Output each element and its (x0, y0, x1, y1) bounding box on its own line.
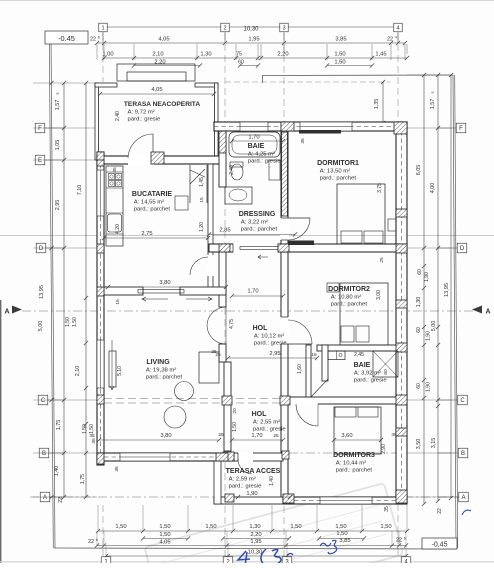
svg-text:LIVING: LIVING (146, 359, 170, 366)
svg-text:1,95: 1,95 (250, 539, 261, 545)
svg-text:C: C (460, 398, 465, 404)
svg-text:2,90: 2,90 (381, 444, 387, 454)
svg-text:TERASA ACCES: TERASA ACCES (226, 468, 281, 475)
svg-text:25: 25 (211, 349, 217, 355)
svg-text:A: 2,55 m²: A: 2,55 m² (253, 420, 280, 426)
svg-text:D: D (39, 246, 44, 252)
svg-text:A: 10,44 m²: A: 10,44 m² (336, 461, 366, 467)
svg-text:pard.: gresie: pard.: gresie (128, 117, 161, 123)
svg-text:1,05: 1,05 (55, 140, 61, 151)
svg-text:2,20: 2,20 (154, 60, 165, 66)
svg-text:A: A (4, 309, 9, 316)
svg-text:35: 35 (89, 433, 95, 439)
svg-text:5: 5 (431, 91, 435, 93)
svg-text:3,75: 3,75 (377, 183, 383, 193)
svg-text:10,30: 10,30 (243, 27, 259, 33)
svg-text:35: 35 (112, 167, 118, 173)
svg-text:3,00: 3,00 (376, 290, 382, 300)
svg-text:3,50: 3,50 (416, 439, 422, 450)
svg-text:1,75: 1,75 (80, 474, 86, 484)
svg-text:2,10: 2,10 (75, 366, 81, 377)
svg-text:20: 20 (232, 408, 238, 414)
svg-text:1,50: 1,50 (159, 524, 170, 530)
svg-text:2,45: 2,45 (354, 352, 364, 358)
svg-text:1,60: 1,60 (297, 364, 303, 374)
svg-text:1,50: 1,50 (334, 52, 345, 58)
svg-text:1,20: 1,20 (199, 222, 205, 232)
svg-text:1,50: 1,50 (65, 317, 71, 327)
svg-text:A: A (485, 309, 490, 316)
svg-text:1,95: 1,95 (248, 37, 259, 43)
svg-text:BAIE: BAIE (354, 362, 371, 369)
svg-text:DORMITOR1: DORMITOR1 (317, 160, 359, 167)
svg-text:pard.: parchet: pard.: parchet (336, 468, 373, 474)
svg-text:13,95: 13,95 (39, 285, 45, 299)
svg-text:1,50: 1,50 (232, 422, 238, 432)
svg-text:1,50: 1,50 (159, 532, 170, 538)
svg-text:1,50: 1,50 (336, 531, 347, 537)
svg-text:1,50: 1,50 (205, 524, 216, 530)
svg-text:22: 22 (437, 508, 443, 514)
svg-text:60: 60 (417, 269, 423, 275)
svg-text:F: F (459, 126, 463, 132)
svg-text:HOL: HOL (253, 325, 269, 332)
svg-text:2,85: 2,85 (219, 228, 230, 234)
svg-text:60: 60 (416, 383, 422, 389)
svg-text:22: 22 (58, 497, 64, 503)
svg-text:13,95: 13,95 (444, 283, 450, 297)
svg-text:1,90: 1,90 (246, 491, 257, 497)
svg-text:1: 1 (101, 26, 104, 32)
svg-text:5,00: 5,00 (38, 321, 44, 332)
svg-text:A: 10,80 m²: A: 10,80 m² (331, 295, 361, 301)
svg-text:4,05: 4,05 (151, 87, 162, 93)
svg-text:3: 3 (282, 26, 285, 32)
svg-text:pard.: gresie: pard.: gresie (254, 341, 287, 347)
svg-text:6: 6 (96, 538, 98, 542)
svg-text:pard.: gresie: pard.: gresie (354, 378, 387, 384)
svg-text:A: 10,12 m²: A: 10,12 m² (254, 334, 284, 340)
svg-text:1,50: 1,50 (335, 524, 346, 530)
svg-text:1,50: 1,50 (82, 424, 88, 434)
svg-text:10,30: 10,30 (248, 550, 263, 556)
svg-text:pard.: parchet: pard.: parchet (241, 227, 278, 233)
svg-text:5,00: 5,00 (431, 321, 437, 332)
svg-text:A: 3,92 m²: A: 3,92 m² (354, 371, 381, 377)
svg-text:A: 3,22 m²: A: 3,22 m² (241, 220, 268, 226)
svg-text:BAIE: BAIE (248, 143, 265, 150)
svg-text:1,57: 1,57 (430, 99, 436, 110)
svg-text:15: 15 (199, 197, 205, 203)
svg-text:A: A (43, 495, 47, 501)
svg-text:A: 19,38 m²: A: 19,38 m² (146, 368, 176, 374)
svg-text:TERASA NEACOPERITA: TERASA NEACOPERITA (124, 101, 200, 108)
svg-text:4,20: 4,20 (115, 224, 121, 234)
svg-text:1,50: 1,50 (115, 524, 126, 530)
svg-text:B: B (42, 451, 46, 457)
svg-text:E: E (38, 158, 42, 164)
svg-text:pard.: parchet: pard.: parchet (331, 302, 368, 308)
svg-text:1,70: 1,70 (248, 135, 259, 141)
svg-text:60: 60 (416, 327, 422, 333)
svg-text:25: 25 (273, 433, 279, 439)
svg-text:6: 6 (404, 537, 406, 541)
svg-text:1,30: 1,30 (249, 524, 260, 530)
svg-text:D: D (460, 246, 465, 252)
svg-text:1,57: 1,57 (55, 100, 61, 111)
svg-text:22: 22 (90, 37, 96, 43)
svg-text:35: 35 (300, 138, 306, 144)
svg-text:3,85: 3,85 (335, 37, 346, 43)
svg-text:1,35: 1,35 (374, 99, 380, 110)
svg-text:B: B (461, 451, 465, 457)
svg-text:1,90: 1,90 (426, 331, 432, 341)
svg-text:35: 35 (384, 506, 390, 512)
svg-text:pard.: parchet: pard.: parchet (134, 207, 171, 213)
svg-text:1,70: 1,70 (247, 289, 258, 295)
svg-text:pard.: parchet: pard.: parchet (146, 375, 183, 381)
svg-text:A: A (461, 495, 465, 501)
svg-text:4: 4 (396, 26, 399, 32)
svg-text:F: F (38, 126, 42, 132)
svg-text:4,05: 4,05 (158, 37, 169, 43)
svg-text:75: 75 (236, 52, 242, 58)
svg-text:4,00: 4,00 (430, 183, 436, 194)
svg-text:DRESSING: DRESSING (239, 211, 276, 218)
svg-text:pard.: parchet: pard.: parchet (320, 176, 357, 182)
svg-text:1,90: 1,90 (424, 272, 430, 282)
svg-text:1,40: 1,40 (54, 466, 60, 477)
svg-text:1,50: 1,50 (72, 317, 78, 327)
svg-text:1,50: 1,50 (290, 524, 301, 530)
svg-text:4,75: 4,75 (229, 319, 235, 329)
svg-text:2,95: 2,95 (269, 351, 280, 357)
svg-text:22: 22 (387, 37, 393, 43)
svg-text:5,10: 5,10 (117, 366, 123, 376)
svg-text:35: 35 (391, 432, 397, 438)
svg-text:1,50: 1,50 (334, 60, 345, 66)
svg-text:2,10: 2,10 (152, 52, 163, 58)
svg-text:3,80: 3,80 (159, 280, 170, 286)
svg-text:1,30: 1,30 (200, 52, 211, 58)
svg-text:1,40: 1,40 (269, 476, 275, 486)
svg-text:pard.: gresie: pard.: gresie (229, 484, 262, 490)
svg-text:3,60: 3,60 (341, 433, 352, 439)
svg-text:3,85: 3,85 (339, 538, 350, 544)
svg-text:2: 2 (223, 26, 226, 32)
svg-text:6: 6 (98, 36, 100, 40)
svg-text:60: 60 (383, 369, 389, 375)
svg-text:C: C (41, 398, 46, 404)
svg-text:1,90: 1,90 (426, 382, 432, 392)
svg-text:15: 15 (115, 299, 121, 305)
svg-text:3,80: 3,80 (160, 433, 171, 439)
svg-text:4: 4 (395, 36, 397, 40)
svg-text:2,75: 2,75 (141, 231, 152, 237)
svg-text:-0.45: -0.45 (58, 34, 75, 43)
svg-text:1,30: 1,30 (416, 297, 422, 308)
svg-text:2,40: 2,40 (115, 111, 121, 121)
svg-text:2,20: 2,20 (277, 52, 288, 58)
svg-text:5: 5 (56, 92, 60, 94)
svg-text:-0.45: -0.45 (432, 542, 448, 549)
svg-text:35: 35 (114, 466, 120, 472)
svg-text:A: 9,72 m²: A: 9,72 m² (128, 110, 155, 116)
svg-text:DORMITOR2: DORMITOR2 (328, 286, 370, 293)
svg-text:4,05: 4,05 (159, 540, 170, 546)
svg-text:A: 14,55 m²: A: 14,55 m² (134, 200, 164, 206)
svg-text:25: 25 (379, 257, 385, 263)
svg-text:HOL: HOL (252, 411, 268, 418)
svg-text:1,45: 1,45 (199, 177, 205, 187)
svg-text:1,50: 1,50 (380, 524, 391, 530)
svg-text:A: 4,25 m²: A: 4,25 m² (248, 152, 275, 158)
svg-text:7,10: 7,10 (77, 185, 83, 196)
svg-text:2,40: 2,40 (229, 165, 235, 175)
svg-text:2,95: 2,95 (55, 200, 61, 211)
svg-text:6,05: 6,05 (416, 165, 422, 176)
svg-text:2,20: 2,20 (250, 532, 261, 538)
svg-text:3,15: 3,15 (431, 438, 437, 449)
svg-text:pard.: gresie: pard.: gresie (253, 427, 286, 433)
svg-text:1,50: 1,50 (89, 424, 95, 434)
svg-text:A: 13,50 m²: A: 13,50 m² (320, 169, 350, 175)
svg-text:25: 25 (218, 432, 224, 438)
svg-text:1,75: 1,75 (56, 420, 62, 431)
svg-text:BUCATARIE: BUCATARIE (132, 191, 173, 198)
svg-text:1,70: 1,70 (251, 433, 262, 439)
svg-text:1,45: 1,45 (375, 52, 386, 58)
svg-text:A: 2,59 m²: A: 2,59 m² (229, 477, 256, 483)
svg-text:15: 15 (311, 352, 317, 358)
svg-text:DORMITOR3: DORMITOR3 (333, 452, 375, 459)
svg-text:pard.: gresie: pard.: gresie (248, 159, 281, 165)
svg-text:22: 22 (88, 539, 94, 545)
